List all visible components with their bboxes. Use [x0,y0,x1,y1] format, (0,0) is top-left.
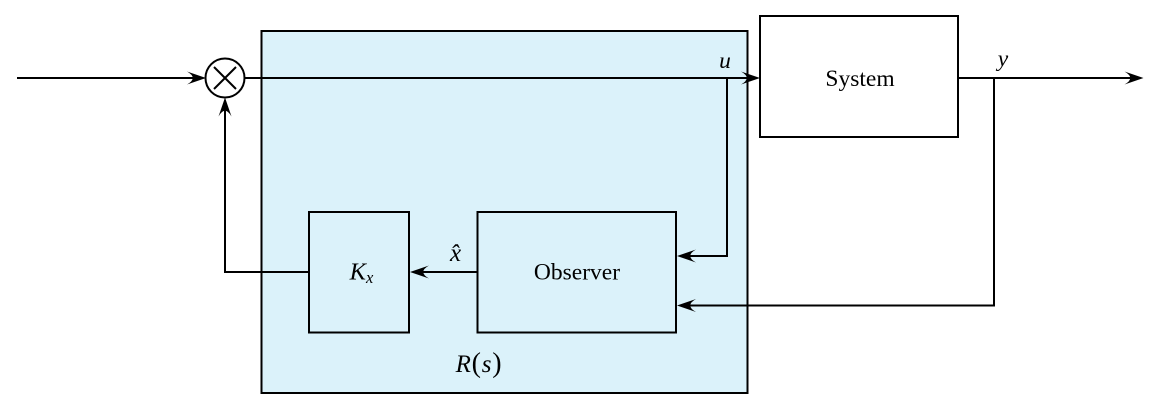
wire: input to summing junction [17,77,196,79]
wire: summing junction to System [245,77,751,79]
wire: Kx feedback to summing junction [225,108,309,272]
arrowhead into Observer (u) [677,250,696,263]
multiplication cross [214,67,236,89]
arrowhead into summing junction bottom [219,98,232,117]
svg-text:x̂: x̂ [449,240,461,267]
svg-text:Observer: Observer [534,260,620,286]
controller region R(s) (shaded block) [262,31,748,393]
arrowhead output [1125,72,1144,85]
summing junction circle [206,59,245,98]
arrowhead into Observer (y) [677,299,696,312]
arrowhead into Kx [410,266,429,279]
svg-text:System: System [825,66,894,92]
wire: Observer to Kx [420,271,478,273]
Observer block [478,212,677,333]
wire: y feedback into Observer [687,78,994,306]
svg-text:R(s): R(s) [455,348,503,379]
svg-text:y: y [996,46,1009,72]
wire: u branch down into Observer [687,78,727,256]
wire: System output [958,77,1133,79]
System block [760,16,958,137]
svg-text:u: u [719,48,731,74]
Kx block [309,212,409,333]
arrowhead into System [741,72,760,85]
arrowhead into summing junction [187,72,206,85]
